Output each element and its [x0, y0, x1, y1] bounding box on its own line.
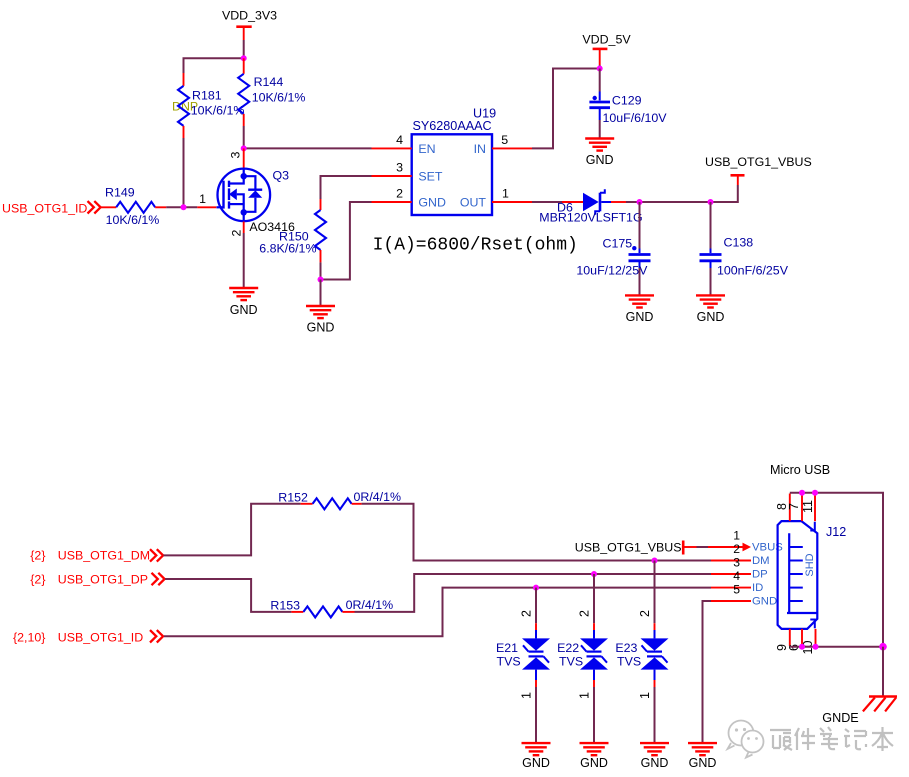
svg-text:MBR120VLSFT1G: MBR120VLSFT1G — [539, 211, 642, 225]
TVS diode E23 — [615, 610, 668, 699]
resistor R152 — [278, 490, 401, 509]
watermark logo — [728, 721, 764, 758]
wire VDD_5V to node E — [599, 65, 601, 69]
svg-text:3: 3 — [733, 556, 740, 570]
wire shield to GNDE — [882, 647, 884, 697]
wire node F to C175 — [639, 202, 641, 249]
wire ID port to ID pin — [164, 588, 711, 637]
J12 pin 10 stub (bottom) — [815, 629, 817, 646]
U19 pin 2 stub — [372, 201, 412, 203]
power port VDD_5V — [582, 33, 631, 66]
ground GND (under C138) — [696, 295, 725, 324]
svg-text:GND: GND — [689, 756, 717, 770]
resistor R150 — [259, 199, 326, 262]
svg-text:C129: C129 — [612, 94, 642, 108]
svg-text:SY6280AAAC: SY6280AAAC — [413, 119, 492, 133]
svg-text:TVS: TVS — [497, 655, 521, 669]
svg-text:ID: ID — [752, 582, 763, 594]
svg-text:1: 1 — [199, 192, 206, 206]
wire U19 IN to VDD_5V node — [532, 69, 600, 149]
wire R150 bottom to node D — [320, 262, 322, 279]
ground GND (under C175) — [625, 295, 654, 324]
capacitor C175 — [576, 237, 650, 278]
wire R149 to Q3 gate, node C — [166, 206, 197, 208]
svg-text:GND: GND — [230, 303, 258, 317]
node D junction — [318, 277, 324, 283]
junction pin 6 bottom — [799, 644, 805, 650]
svg-text:11: 11 — [801, 500, 815, 513]
svg-text:GND: GND — [626, 310, 654, 324]
Q3 pin 2 stub — [243, 222, 245, 234]
resistor R153 — [270, 598, 393, 617]
svg-text:OUT: OUT — [460, 196, 487, 210]
svg-text:GND: GND — [752, 596, 777, 608]
power port USB_OTG1_VBUS (bottom) — [575, 541, 697, 555]
wire U19 GND pin to node D — [321, 202, 372, 280]
svg-text:1: 1 — [638, 692, 652, 699]
svg-text:IN: IN — [474, 142, 486, 156]
node C junction — [181, 204, 187, 210]
svg-text:2: 2 — [520, 610, 534, 617]
power port VDD_3V3 — [222, 9, 277, 41]
svg-text:{2}: {2} — [30, 549, 45, 563]
svg-text:DM: DM — [752, 555, 770, 567]
J12 pin 11 stub (top) — [814, 494, 816, 522]
svg-text:2: 2 — [638, 610, 652, 617]
svg-text:4: 4 — [733, 569, 740, 583]
svg-text:2: 2 — [396, 187, 403, 201]
wire node D to GND — [320, 280, 322, 307]
svg-text:6.8K/6/1%: 6.8K/6/1% — [259, 242, 316, 256]
wire C175 to GND — [639, 268, 641, 295]
wire Q3 source to GND — [243, 233, 245, 288]
wire node B to U19 EN — [244, 147, 372, 149]
svg-text:10uF/12/25V: 10uF/12/25V — [576, 264, 648, 278]
node B junction — [241, 145, 247, 151]
svg-text:I(A)=6800/Rset(ohm): I(A)=6800/Rset(ohm) — [373, 236, 578, 256]
TVS diode E21 — [496, 610, 550, 699]
char 本 — [872, 727, 893, 751]
svg-text:{2}: {2} — [30, 573, 45, 587]
TVS diode E22 — [557, 610, 608, 699]
node F junction — [637, 199, 643, 205]
svg-text:J12: J12 — [826, 525, 846, 539]
wire R144 bottom to node B — [243, 126, 245, 148]
svg-text:USB_OTG1_ID: USB_OTG1_ID — [58, 631, 143, 645]
svg-text:2: 2 — [733, 542, 740, 556]
wire C138 to GND — [710, 268, 712, 295]
wire R152 to DM pin — [362, 504, 711, 561]
wire C129 to GND — [599, 120, 601, 139]
svg-text:GND: GND — [586, 153, 614, 167]
wire node G to C138 — [710, 202, 712, 249]
wire SET to R150 — [321, 176, 372, 199]
svg-text:SHD: SHD — [804, 553, 816, 576]
J12 pin 2 stub — [711, 560, 751, 562]
net USB_OTG1_ID port (bottom) — [13, 630, 163, 644]
ground GND (under Q3) — [229, 288, 258, 317]
svg-text:7: 7 — [787, 503, 801, 510]
ground GND (under R150) — [306, 306, 335, 335]
node E junction — [597, 66, 603, 72]
svg-text:3: 3 — [229, 151, 243, 158]
svg-text:R152: R152 — [278, 491, 308, 505]
net USB_OTG1_ID port (top) — [2, 201, 101, 215]
svg-text:R181: R181 — [192, 89, 222, 103]
J12 pin 1 stub with arrow — [708, 546, 743, 548]
resistor R181 — [172, 73, 244, 138]
J12 pin 6 stub (bottom) — [801, 629, 803, 646]
svg-text:2: 2 — [230, 229, 244, 236]
wire E22 to GND — [593, 687, 595, 743]
wire E23 top — [654, 561, 656, 624]
svg-text:1: 1 — [502, 187, 509, 201]
U19 pin 3 stub — [372, 175, 412, 177]
svg-text:R149: R149 — [105, 185, 135, 199]
junction pin 11 top — [812, 490, 818, 496]
J12 pin 5 stub — [711, 600, 751, 602]
J12 pin 3 stub — [711, 573, 751, 575]
junction pin 7 top — [799, 490, 805, 496]
ground GND (under E21) — [522, 743, 551, 770]
Q3 pin 3 stub — [243, 148, 245, 167]
svg-text:USB_OTG1_VBUS: USB_OTG1_VBUS — [575, 541, 682, 555]
connector J12 body — [778, 521, 847, 629]
svg-text:C138: C138 — [724, 236, 754, 250]
svg-text:GND: GND — [697, 310, 725, 324]
svg-text:{2,10}: {2,10} — [13, 631, 45, 645]
ground GND (under E23) — [640, 743, 669, 770]
wire D6 to USB_OTG1_VBUS — [626, 185, 738, 202]
Q3 pin 1 stub — [197, 206, 216, 208]
svg-text:4: 4 — [396, 133, 403, 147]
capacitor C138 — [700, 236, 789, 278]
wire E23 to GND — [654, 687, 656, 743]
svg-text:0R/4/1%: 0R/4/1% — [354, 490, 402, 504]
ground GND (under E22) — [580, 743, 609, 770]
capacitor C129 — [589, 92, 667, 126]
power port USB_OTG1_VBUS (top) — [705, 155, 812, 185]
wire node E to C129 — [599, 69, 601, 92]
resistor R149 — [100, 185, 166, 227]
svg-text:10K/6/1%: 10K/6/1% — [106, 213, 160, 227]
svg-text:DP: DP — [752, 569, 768, 581]
svg-text:GND: GND — [418, 196, 446, 210]
char 笔 — [820, 727, 838, 749]
svg-text:TVS: TVS — [559, 655, 583, 669]
diode D6 MBR120VLSFT1G — [539, 189, 642, 224]
watermark text 硬件笔记本 (approximated strokes) — [770, 727, 893, 751]
svg-text:GND: GND — [641, 756, 669, 770]
wire shield top — [790, 493, 883, 647]
svg-text:10K/6/1%: 10K/6/1% — [252, 91, 306, 105]
U19 pin 5 stub — [492, 147, 532, 149]
svg-text:TVS: TVS — [617, 655, 641, 669]
transistor Q3 (AO3416 MOSFET) — [217, 168, 295, 234]
J12 pin 4 stub — [711, 587, 751, 589]
wire VBUS port to J12 pin 1 — [697, 546, 709, 548]
svg-text:USB_OTG1_ID: USB_OTG1_ID — [2, 202, 87, 216]
svg-text:10uF/6/10V: 10uF/6/10V — [603, 111, 668, 125]
svg-text:GND: GND — [307, 321, 335, 335]
svg-text:GND: GND — [522, 756, 550, 770]
svg-text:E23: E23 — [615, 641, 637, 655]
J12 pin 7 stub (top) — [801, 494, 803, 522]
junction pin 10 bottom — [813, 644, 819, 650]
svg-text:0R/4/1%: 0R/4/1% — [346, 598, 394, 612]
ground GND (J12 pin 5) — [688, 743, 717, 770]
op-amp U19 SY6280AAAC — [412, 107, 496, 215]
node G junction — [708, 199, 714, 205]
svg-text:R153: R153 — [270, 599, 300, 613]
char 记 — [844, 729, 866, 749]
net USB_OTG1_DP port — [30, 573, 164, 587]
wire VDD_3V3 to node A — [243, 40, 245, 58]
svg-text:1: 1 — [520, 692, 534, 699]
svg-text:USB_OTG1_VBUS: USB_OTG1_VBUS — [705, 155, 812, 169]
svg-text:1: 1 — [733, 529, 740, 543]
svg-text:USB_OTG1_DM: USB_OTG1_DM — [58, 549, 150, 563]
svg-text:1: 1 — [578, 692, 592, 699]
net USB_OTG1_DM port — [30, 549, 163, 563]
J12 pin 8 stub (top) — [789, 494, 791, 522]
U19 pin 4 stub — [372, 147, 412, 149]
svg-text:GND: GND — [580, 756, 608, 770]
wire E21 to GND — [535, 687, 537, 743]
ground GND (under C129) — [585, 139, 614, 168]
ground GNDE — [822, 697, 897, 726]
svg-text:SET: SET — [418, 170, 443, 184]
svg-text:R144: R144 — [254, 75, 284, 89]
svg-text:EN: EN — [418, 142, 435, 156]
wire DP port to R153 — [165, 579, 291, 612]
wire U19 OUT to D6 — [532, 201, 562, 203]
node J junction (ID/E21) — [533, 585, 539, 591]
char 硬 — [770, 730, 792, 750]
svg-text:5: 5 — [733, 583, 740, 597]
svg-text:2: 2 — [578, 610, 592, 617]
svg-text:E21: E21 — [496, 641, 518, 655]
J12 pin names — [752, 542, 783, 608]
wire J12 pin 5 to GND — [703, 601, 712, 743]
svg-text:5: 5 — [501, 133, 508, 147]
J12 pin 9 stub (bottom) — [789, 629, 791, 646]
svg-text:E22: E22 — [557, 641, 579, 655]
svg-text:USB_OTG1_DP: USB_OTG1_DP — [58, 573, 148, 587]
node H junction (DM/E23) — [652, 558, 658, 564]
wire node A to R181 top — [184, 58, 244, 73]
wire E22 top — [593, 574, 595, 623]
wire R181 bottom to node C — [183, 138, 185, 207]
junction shield corner — [879, 643, 887, 651]
svg-text:Micro USB: Micro USB — [770, 463, 830, 477]
svg-text:VDD_5V: VDD_5V — [582, 33, 631, 47]
svg-text:GNDE: GNDE — [822, 711, 858, 725]
node I junction (DP/E22) — [591, 571, 597, 577]
wire shield bottom — [790, 646, 883, 648]
resistor R144 — [238, 58, 305, 126]
svg-text:C175: C175 — [603, 237, 633, 251]
svg-text:Q3: Q3 — [273, 169, 290, 183]
node A junction — [241, 55, 247, 61]
svg-text:3: 3 — [396, 161, 403, 175]
wire E21 top — [535, 588, 537, 624]
wire DM port to R152 — [164, 504, 301, 556]
char 件 — [795, 728, 815, 750]
U19 pin 1 stub — [492, 201, 532, 203]
svg-text:10K/6/1%: 10K/6/1% — [191, 103, 245, 117]
wire R153 to DP pin — [355, 574, 712, 612]
svg-text:100nF/6/25V: 100nF/6/25V — [717, 264, 789, 278]
svg-text:VDD_3V3: VDD_3V3 — [222, 9, 277, 23]
